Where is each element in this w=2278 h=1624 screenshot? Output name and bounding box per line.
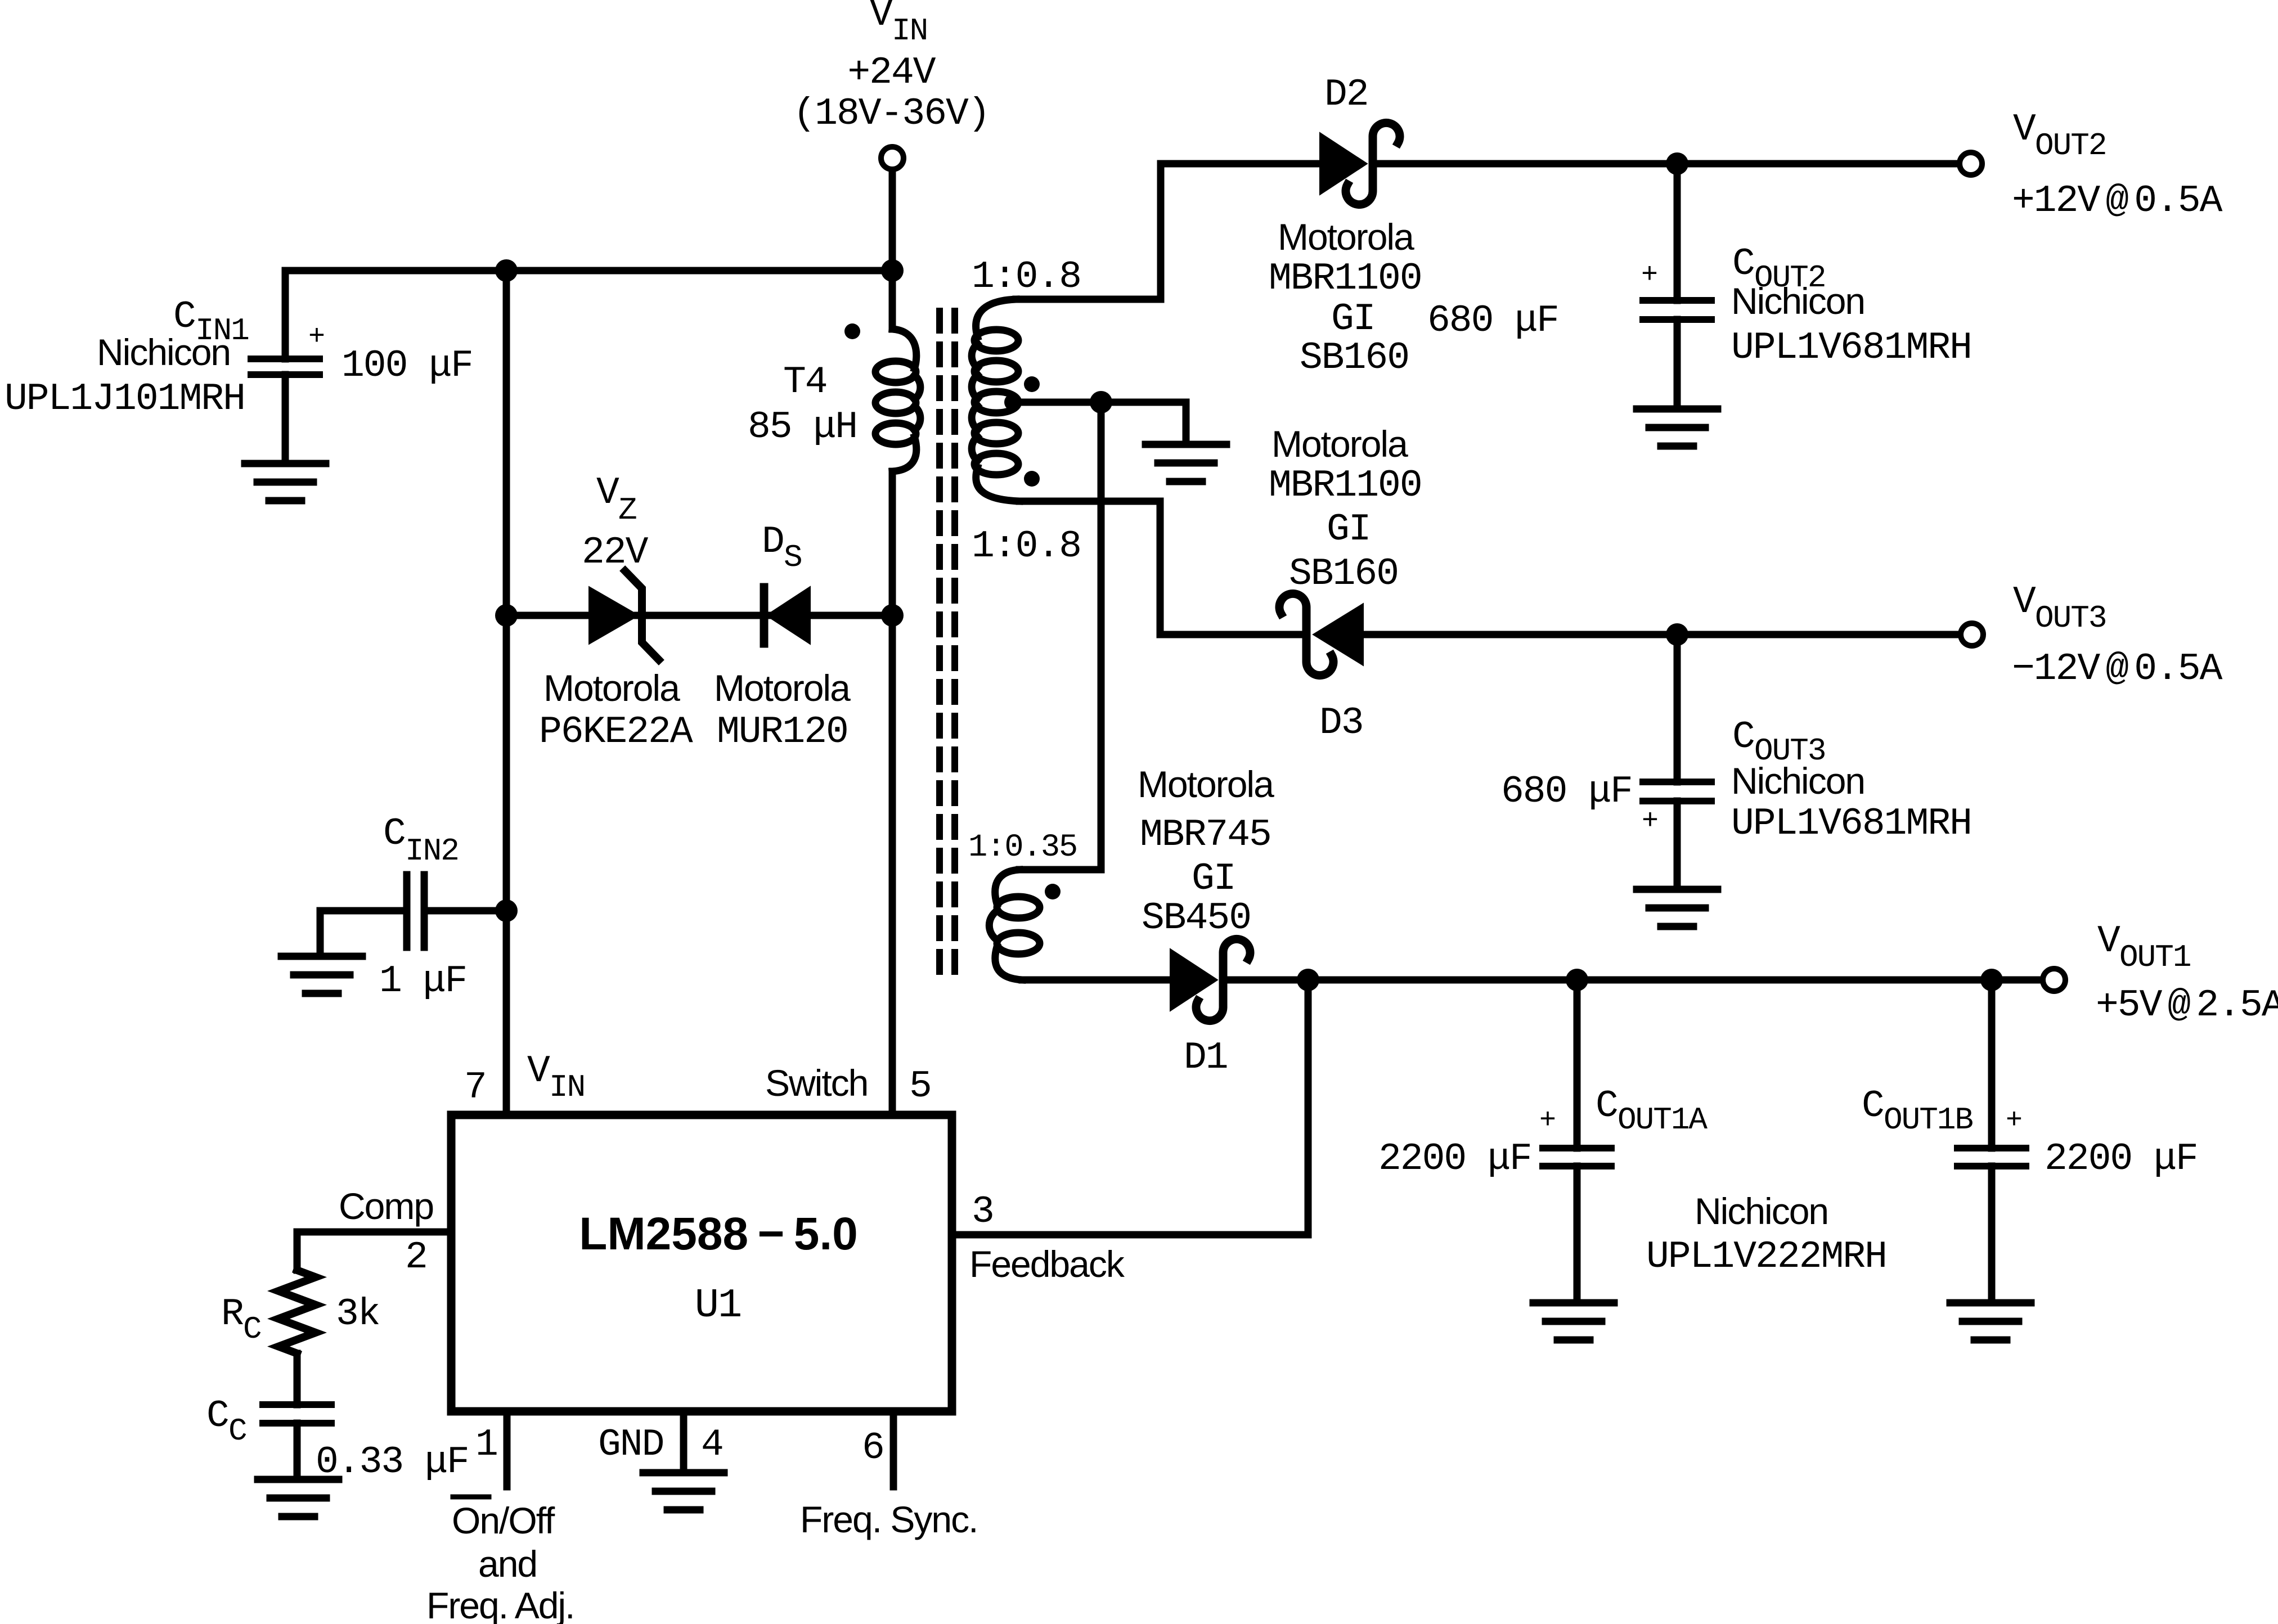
svg-text:MBR1100: MBR1100: [1269, 464, 1422, 507]
svg-text:1:0.8: 1:0.8: [972, 525, 1081, 568]
svg-text:2200 μF: 2200 μF: [2045, 1137, 2198, 1181]
svg-text:D3: D3: [1319, 701, 1363, 745]
svg-text:Freq. Adj.: Freq. Adj.: [426, 1585, 574, 1624]
svg-text:SB160: SB160: [1300, 336, 1409, 380]
svg-text:MUR120: MUR120: [717, 710, 848, 754]
svg-text:2: 2: [405, 1236, 427, 1279]
svg-text:Comp: Comp: [339, 1185, 433, 1227]
svg-text:C: C: [1862, 1085, 1884, 1128]
svg-text:Motorola: Motorola: [714, 667, 851, 709]
svg-text:C: C: [243, 1311, 261, 1347]
svg-text:C: C: [1732, 242, 1754, 286]
svg-text:Nichicon: Nichicon: [1731, 760, 1864, 802]
svg-text:Z: Z: [618, 492, 636, 528]
svg-text:0.33 μF: 0.33 μF: [316, 1441, 469, 1484]
svg-text:UPL1V222MRH: UPL1V222MRH: [1646, 1235, 1886, 1279]
svg-text:C: C: [1596, 1085, 1617, 1128]
svg-text:GI: GI: [1192, 857, 1235, 901]
svg-text:1:0.8: 1:0.8: [972, 255, 1081, 299]
svg-text:+: +: [1642, 806, 1659, 838]
svg-text:85 μH: 85 μH: [748, 406, 857, 449]
svg-text:Freq. Sync.: Freq. Sync.: [800, 1499, 977, 1540]
svg-text:V: V: [596, 471, 619, 515]
svg-text:−12V @ 0.5A: −12V @ 0.5A: [2012, 647, 2223, 691]
svg-text:2200 μF: 2200 μF: [1378, 1137, 1531, 1181]
svg-text:+: +: [1641, 259, 1658, 291]
svg-text:Motorola: Motorola: [1138, 763, 1274, 805]
svg-text:MBR745: MBR745: [1140, 813, 1271, 857]
svg-text:Nichicon: Nichicon: [1731, 280, 1864, 322]
svg-text:D: D: [762, 520, 784, 564]
svg-text:V: V: [2013, 108, 2036, 151]
svg-text:GI: GI: [1327, 508, 1371, 551]
svg-text:5: 5: [909, 1065, 931, 1108]
svg-text:UPL1V681MRH: UPL1V681MRH: [1731, 802, 1971, 845]
svg-text:680 μF: 680 μF: [1427, 299, 1558, 343]
svg-text:C: C: [228, 1413, 246, 1449]
svg-text:IN: IN: [892, 13, 927, 49]
svg-text:P6KE22A: P6KE22A: [539, 710, 693, 754]
svg-text:UPL1V681MRH: UPL1V681MRH: [1731, 326, 1971, 370]
svg-text:Feedback: Feedback: [969, 1243, 1125, 1285]
svg-text:Switch: Switch: [765, 1062, 868, 1104]
svg-text:1 μF: 1 μF: [379, 960, 466, 1003]
svg-text:680 μF: 680 μF: [1501, 770, 1632, 813]
svg-text:GI: GI: [1331, 298, 1375, 341]
svg-text:V: V: [2097, 920, 2120, 963]
svg-text:D1: D1: [1184, 1036, 1228, 1079]
svg-text:OUT1: OUT1: [2119, 939, 2190, 975]
svg-text:IN2: IN2: [405, 833, 459, 869]
svg-text:and: and: [478, 1543, 537, 1585]
svg-text:Motorola: Motorola: [1271, 423, 1408, 465]
svg-text:S: S: [784, 539, 802, 575]
svg-text:Motorola: Motorola: [543, 667, 680, 709]
svg-text:+: +: [1539, 1105, 1556, 1137]
svg-text:1: 1: [475, 1423, 497, 1466]
svg-text:MBR1100: MBR1100: [1269, 257, 1422, 300]
svg-text:6: 6: [862, 1427, 884, 1470]
svg-text:Motorola: Motorola: [1278, 216, 1414, 258]
svg-text:3k: 3k: [336, 1293, 380, 1336]
svg-text:Nichicon: Nichicon: [1695, 1190, 1828, 1232]
svg-text:C: C: [206, 1394, 228, 1438]
svg-text:(18V-36V): (18V-36V): [793, 92, 989, 136]
svg-text:100 μF: 100 μF: [342, 344, 473, 388]
svg-text:+5V @ 2.5A: +5V @ 2.5A: [2096, 984, 2278, 1027]
svg-text:V: V: [527, 1050, 550, 1093]
svg-text:+24V: +24V: [847, 51, 936, 95]
svg-text:IN: IN: [549, 1069, 585, 1105]
svg-text:SB160: SB160: [1289, 552, 1398, 596]
svg-text:22V: 22V: [582, 531, 649, 574]
svg-text:V: V: [870, 0, 893, 37]
svg-text:C: C: [383, 812, 405, 856]
svg-text:7: 7: [464, 1066, 486, 1109]
svg-text:OUT3: OUT3: [2035, 600, 2106, 636]
svg-text:+: +: [308, 321, 325, 353]
svg-text:OUT1B: OUT1B: [1884, 1102, 1973, 1138]
svg-text:+12V @ 0.5A: +12V @ 0.5A: [2012, 179, 2223, 223]
svg-text:V: V: [2013, 581, 2036, 624]
svg-text:Nichicon: Nichicon: [97, 331, 230, 373]
svg-text:On/Off: On/Off: [452, 1500, 555, 1541]
svg-text:UPL1J101MRH: UPL1J101MRH: [5, 377, 245, 421]
svg-text:GND: GND: [598, 1423, 663, 1466]
svg-text:U1: U1: [695, 1283, 741, 1329]
svg-text:OUT1A: OUT1A: [1617, 1102, 1708, 1138]
svg-text:4: 4: [701, 1423, 723, 1466]
svg-text:1:0.35: 1:0.35: [968, 830, 1077, 866]
svg-text:LM2588 − 5.0: LM2588 − 5.0: [579, 1208, 858, 1259]
svg-text:OUT2: OUT2: [2035, 128, 2106, 164]
svg-text:SB450: SB450: [1142, 897, 1251, 940]
svg-text:T4: T4: [783, 361, 827, 404]
svg-text:D2: D2: [1324, 73, 1368, 116]
svg-text:R: R: [221, 1293, 244, 1336]
svg-text:3: 3: [972, 1190, 994, 1234]
svg-text:C: C: [1732, 716, 1754, 759]
svg-text:+: +: [2006, 1105, 2023, 1137]
